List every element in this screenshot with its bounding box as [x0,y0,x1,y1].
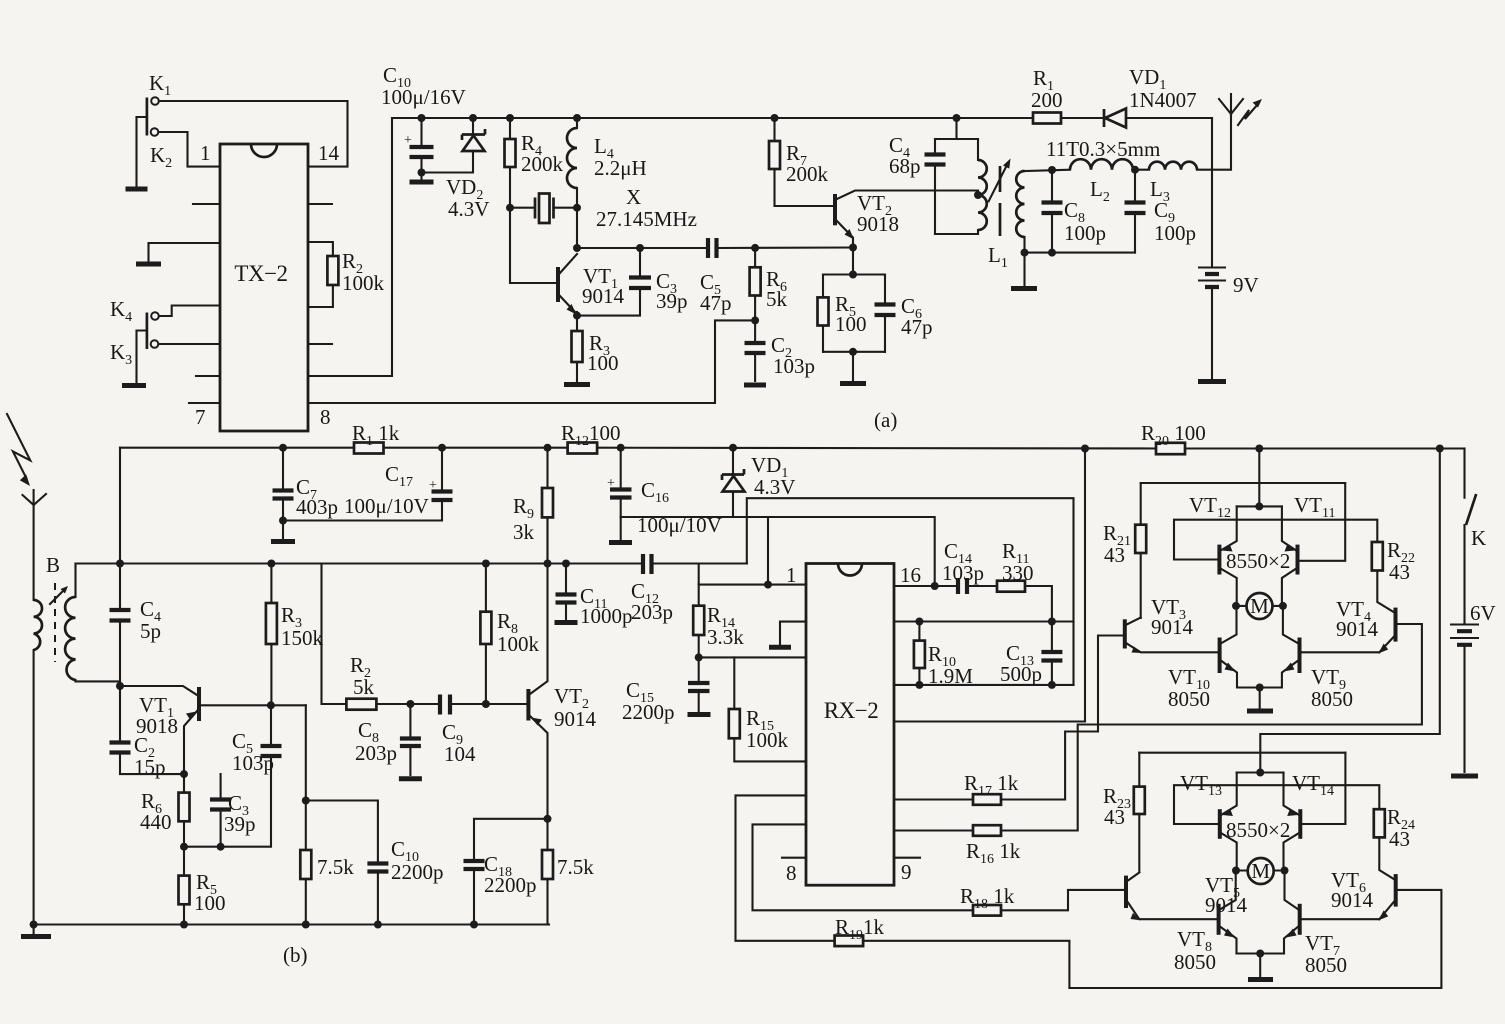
VT3 collector [1127,618,1141,625]
ground under C10 [410,180,434,185]
transistor VT5 bar [1124,876,1128,908]
VT7 collector [1285,871,1298,910]
IC RX-2 notch [838,564,862,576]
VT14 emitter arrow [1287,810,1298,817]
wire R10 bottom line [894,684,1074,686]
svg-text:9014: 9014 [582,284,625,308]
crystal X electrodes [535,198,554,219]
switch K2 [151,128,159,136]
ground under C16 [620,517,622,539]
VT5 emitter arrow [1131,913,1141,920]
svg-text:100k: 100k [746,728,789,752]
transistor VT3 bar [1123,619,1127,648]
transistor VT2 b bar [526,689,530,721]
VT12 collector [1221,569,1236,602]
wire L3 to antenna [1197,114,1231,170]
svg-text:100: 100 [587,351,619,375]
switch K3 [151,340,159,348]
resistor R2 wires [308,242,333,307]
resistor R2 [327,256,338,285]
svg-text:100p: 100p [1154,221,1196,245]
capacitor C5 b [270,705,272,745]
svg-text:8550×2: 8550×2 [1226,818,1290,842]
ground at TX-2 left pin [136,262,161,267]
bridge2 inner coupling wire [1174,785,1379,824]
bottom rail b [34,923,549,925]
tank bottom side [935,233,978,235]
resistor R7 [775,118,834,206]
capacitor C3 b [220,774,222,847]
transistor VT9 bar [1298,638,1302,674]
bridge1 frame top [1141,482,1346,484]
svg-text:RX−2: RX−2 [824,698,878,723]
svg-text:9014: 9014 [554,707,597,731]
wire C10 to VD2 [422,153,474,173]
node line R6 C3 C5 [184,756,271,847]
VT8 collector [1221,871,1236,910]
RX-2 pin8 stub [782,857,806,859]
resistor 7.5k first [305,801,307,925]
VT3 emitter [1127,644,1219,653]
inductor L4 [576,118,578,128]
motor M1 [1247,593,1273,619]
VT14 emitter [1284,773,1299,815]
svg-text:9: 9 [901,860,912,884]
resistor R22 [1372,542,1383,571]
svg-text:500p: 500p [1000,662,1042,686]
resistor R17 [973,794,1001,805]
VT9 emitter arrow [1283,663,1294,672]
zener diode VD1 b [732,448,734,474]
VT5 collector [1128,873,1139,881]
ground under K1/K2 [126,187,148,192]
K1 K2 plunger bar [146,98,149,136]
node C10 bottom [418,169,426,177]
svg-text:4.3V: 4.3V [448,197,489,221]
svg-text:8: 8 [786,861,797,885]
svg-text:7: 7 [195,405,206,429]
svg-text:8050: 8050 [1168,687,1210,711]
bridge2 lower bus [1237,952,1285,954]
svg-text:68p: 68p [889,154,921,178]
transformer B right coil [76,564,121,682]
VT7 base wire [1302,918,1379,920]
battery 6V wire [1463,525,1465,624]
VT1 emitter [560,296,575,312]
TX-2 right stub pin [308,203,332,205]
switch K4 [151,312,159,320]
transistor VT11 bar [1296,545,1300,575]
VT2 b collector [530,517,548,694]
bridge2 frame top [1139,752,1345,754]
transistor VT14 bar [1298,809,1302,839]
TX-2 left stub pin [193,203,220,205]
svg-text:9014: 9014 [1151,615,1194,639]
transistor VT2 base bar [833,194,837,225]
node C10 [418,114,426,122]
transformer B core dashed [54,583,56,662]
svg-text:8050: 8050 [1174,950,1216,974]
wire VT2 emitter to box [852,248,854,275]
capacitor C18 branch [474,819,548,925]
ground under L1 [1023,253,1025,285]
antenna b mast [33,505,35,925]
resistor R6 b [183,774,185,847]
svg-text:39p: 39p [656,289,688,313]
wire collector line to C5 [577,247,707,249]
K4 K3 plunger bar [146,313,149,350]
emitter bus bridge1 [1237,505,1282,507]
svg-text:440: 440 [140,810,172,834]
svg-text:K: K [1471,526,1486,550]
capacitor C12 in rail-2 [643,554,652,574]
IC TX-2 body [220,144,308,431]
svg-text:9V: 9V [1233,273,1259,297]
svg-text:43: 43 [1389,560,1410,584]
svg-text:5k: 5k [353,675,375,699]
VT5 emitter [1128,903,1219,920]
RX-2 pin1 wire [699,584,806,586]
bridge2 supply wire from rail [1260,449,1440,773]
VT4 emitter arrow [1378,644,1388,654]
ground under C8 b [399,776,422,781]
transistor VT7 bar [1298,904,1302,935]
TX-2 left ground pin wire [149,243,221,261]
svg-text:1000p: 1000p [580,604,633,628]
wire K4 to TX-2 [159,306,220,317]
ground under C2 [744,383,766,388]
transistor VT1 b base wire [120,686,197,695]
VT8 emitter arrow [1224,929,1235,938]
resistor R3 b [270,564,272,706]
svg-text:8550×2: 8550×2 [1226,549,1290,573]
transformer B left coil [34,600,42,650]
resistor R19 wire [736,795,1442,988]
svg-text:100μ/16V: 100μ/16V [381,85,466,109]
svg-text:7.5k: 7.5k [557,855,594,879]
capacitor C14 [958,578,967,594]
TX-2 pin7 stub [189,402,220,404]
rail segment after R1 [1061,117,1104,119]
wire L1 bottom [1025,252,1136,254]
svg-text:47p: 47p [901,315,933,339]
svg-text:43: 43 [1389,827,1410,851]
svg-text:103p: 103p [773,354,815,378]
resistor R17 wire [894,636,1123,800]
transformer L1 primary [977,139,979,234]
transistor VT1 b bar [197,687,201,721]
resistor R4 [510,118,556,283]
ground bridge1 [1259,688,1261,709]
svg-text:(a): (a) [874,408,897,432]
node VD2 [469,114,477,122]
svg-text:1N4007: 1N4007 [1129,88,1197,112]
svg-text:9014: 9014 [1331,888,1374,912]
capacitor C2 [754,320,756,381]
capacitor C2 b [120,686,184,774]
wire rail down to battery [1211,118,1213,267]
capacitor C13 [1051,622,1053,685]
inductor L3 [1149,162,1197,170]
svg-text:3k: 3k [513,520,535,544]
svg-text:+: + [607,476,615,491]
svg-text:27.145MHz: 27.145MHz [596,207,697,231]
IC TX-2 notch [251,144,277,157]
VT2 collector [837,191,978,200]
capacitor C10 [420,118,422,179]
resistor R9 [546,448,548,564]
svg-text:9014: 9014 [1336,617,1379,641]
svg-text:R16 1k: R16 1k [966,839,1021,867]
svg-text:4.3V: 4.3V [754,475,795,499]
svg-text:200k: 200k [786,162,829,186]
resistor R16 wire [894,624,1422,831]
svg-text:(b): (b) [283,943,308,967]
VT11 emitter arrow [1285,545,1296,552]
VT2 b base wire [486,703,526,705]
svg-text:11T0.3×5mm: 11T0.3×5mm [1046,137,1160,161]
svg-text:103p: 103p [942,561,984,585]
VT4 collector [1377,571,1393,613]
VT14 collector [1284,834,1299,867]
TX-2 left stub pin [196,375,220,377]
resistor R24 [1374,809,1385,837]
capacitor C16 [620,448,622,517]
VT11 collector [1282,569,1296,602]
wire 4.3V net [621,517,935,585]
resistor R12 b [568,443,598,454]
svg-text:3.3k: 3.3k [707,625,744,649]
svg-text:15p: 15p [134,755,166,779]
bridge2 frame left [1138,753,1140,872]
wire rail to C4 tank [955,118,957,139]
svg-text:5k: 5k [766,287,788,311]
transformer L1 secondary [1023,237,1025,253]
svg-text:403p: 403p [296,495,338,519]
battery 9V [1198,268,1226,281]
capacitor C4 b [110,610,131,621]
svg-text:+: + [404,133,412,148]
R5 C6 box bottom [823,351,885,353]
ground under R3 [564,382,590,387]
svg-text:100k: 100k [342,271,385,295]
svg-text:2200p: 2200p [391,860,444,884]
VT9 collector [1283,606,1298,643]
transformer L1 core [999,166,1002,236]
tank top side [935,138,978,140]
svg-text:R12100: R12100 [561,421,621,449]
capacitor C17 [441,448,443,491]
svg-text:R17 1k: R17 1k [964,771,1019,799]
antenna b wave arrow [7,414,30,479]
VT3 emitter arrow [1132,647,1142,654]
VT1 b emitter [184,711,197,774]
svg-text:9018: 9018 [857,212,899,236]
R5 C6 box top [823,273,885,275]
VT13 collector [1222,834,1237,867]
svg-text:150k: 150k [281,626,324,650]
svg-text:1: 1 [200,141,211,165]
transistor VT1 base bar [556,267,560,302]
svg-text:100k: 100k [497,632,540,656]
capacitor C11 [565,564,567,620]
outer box wire [747,498,1074,685]
svg-text:100: 100 [835,312,867,336]
resistor R5 b [183,847,185,925]
diode VD1 [1103,109,1106,127]
svg-text:X: X [626,185,641,209]
wire K2 to pin1 [159,132,221,167]
rail-1 b [120,447,1465,450]
IC RX-2 body [806,564,894,886]
svg-text:200: 200 [1031,88,1063,112]
svg-text:43: 43 [1104,543,1125,567]
VT10 emitter [1222,661,1237,688]
ground bridge2 [1259,954,1261,977]
zener diode VD2 [472,118,474,134]
VT2 b emitter [530,716,548,925]
svg-text:2200p: 2200p [622,700,675,724]
VT7 emitter arrow [1286,929,1297,938]
svg-text:8: 8 [320,405,331,429]
svg-text:R1 1k: R1 1k [352,421,400,449]
svg-text:200k: 200k [521,152,564,176]
VT7 emitter [1284,927,1298,954]
svg-text:M: M [1251,859,1270,883]
VT12 emitter [1221,506,1236,550]
wire TX-2 pin8 long [308,320,755,403]
VT1 emitter arrow [567,304,577,315]
ground under C11 [555,620,578,625]
transistor VT4 bar [1394,608,1398,642]
svg-text:104: 104 [444,742,476,766]
B adjust arrow [50,590,64,604]
ground under 6V [1451,774,1478,779]
VT2 emitter [837,221,853,248]
RX-2 pin16 wire [894,585,997,587]
VT10 collector [1222,606,1237,643]
VT9 base wire [1302,651,1380,653]
svg-text:2.2μH: 2.2μH [594,156,647,180]
resistor R3 [576,316,578,381]
bridge1 inner coupling wire [1174,520,1377,560]
VT2 emitter arrow [845,229,855,240]
svg-text:M: M [1250,594,1269,618]
K4 K3 ground wire [137,331,147,383]
svg-text:203p: 203p [631,600,673,624]
svg-text:+: + [429,478,437,493]
VT4 emitter [1379,637,1393,652]
L1 adjust arrow [989,163,1008,201]
antenna b [23,490,47,505]
VT1 collector [560,254,577,273]
svg-text:43: 43 [1104,805,1125,829]
resistor R14 [698,564,700,658]
svg-text:6V: 6V [1470,601,1496,625]
VT6 emitter [1379,902,1393,919]
resistor R5 [822,275,824,352]
RX-2 pin9 stub [894,857,920,859]
svg-text:14: 14 [318,141,340,165]
resistor R10 [918,622,920,685]
VT9 emitter [1282,661,1298,688]
ground under C15 [688,712,711,717]
svg-text:203p: 203p [355,741,397,765]
wire TX-2 supply pin to rail [308,118,1033,376]
transistor VT12 bar [1217,545,1221,575]
svg-text:R18 1k: R18 1k [960,884,1015,912]
VT13 emitter [1222,773,1237,815]
antenna a [1219,94,1243,114]
crystal X body [539,194,550,224]
svg-text:TX−2: TX−2 [234,261,287,286]
ground under C7 [282,521,284,539]
VT8 emitter [1221,927,1237,954]
svg-text:103p: 103p [232,751,274,775]
bridge1 lower bus [1237,686,1282,688]
VT10 emitter arrow [1225,663,1236,672]
wire C7 to C17 [283,500,442,521]
resistor R18 [973,905,1001,916]
svg-text:39p: 39p [224,812,256,836]
svg-text:47p: 47p [700,291,732,315]
ground under K3/K4 [122,383,146,388]
resistor R21 [1135,525,1146,553]
inductor L2 [1070,159,1133,169]
resistor R6 [754,248,756,321]
resistor R19 [835,936,864,947]
VT12 emitter arrow [1222,545,1233,552]
ground under battery [1198,379,1226,384]
resistor R16 [973,825,1001,836]
svg-text:8050: 8050 [1311,687,1353,711]
switch K1 [151,97,159,105]
resistor R8 [485,564,487,705]
capacitor C15 [698,657,700,711]
resistor R18 wire [753,824,1125,910]
wire L1 secondary top to C8 [1025,170,1071,171]
VT6 emitter arrow [1378,910,1388,920]
VT11 emitter [1282,506,1296,550]
svg-text:B: B [46,553,60,577]
capacitor C8 b [409,704,411,775]
svg-text:100: 100 [194,891,226,915]
RX-2 supply pin wire [894,449,1085,722]
wire K1 to pin14 [159,101,348,167]
antenna a wave arrow [1238,104,1258,125]
svg-text:100p: 100p [1064,221,1106,245]
svg-text:2200p: 2200p [484,873,537,897]
VT13 emitter arrow [1222,810,1233,817]
svg-text:16: 16 [900,563,921,587]
bridge1 frame left [1140,483,1142,618]
resistor 7.5k second [542,850,553,879]
svg-text:100μ/10V: 100μ/10V [344,494,429,518]
resistor R11 [997,581,1025,592]
capacitor C5 series [708,238,717,258]
resistor R1 b [354,443,384,454]
TX-2 right stub pin [308,343,332,345]
ground bottom left [33,925,35,935]
wire R10 top line [894,620,1074,622]
capacitor C6 [884,275,886,352]
crystal X leads [510,207,577,209]
transistor VT13 bar [1218,809,1222,839]
transistor VT8 bar [1217,904,1221,935]
bridge1 supply wire [1258,449,1260,507]
switch K [1463,449,1465,498]
capacitor C7 [282,448,284,521]
